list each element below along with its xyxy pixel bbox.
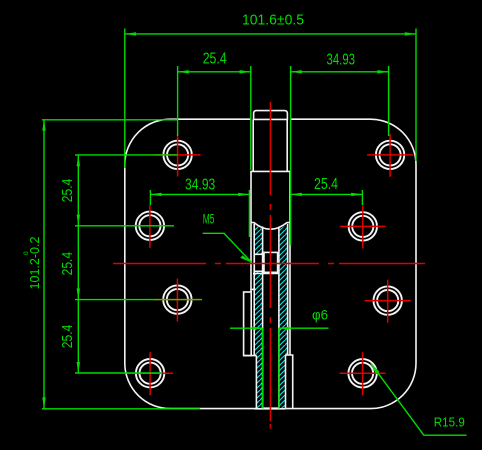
text 25.4 stack 1 bbox=[59, 179, 76, 203]
text 101.2 tol rotated bbox=[23, 236, 42, 289]
knuckle outer wall right bbox=[289, 171, 291, 355]
arrows dim stack ends bbox=[77, 155, 80, 166]
left step line bbox=[244, 355, 257, 357]
crosshair hole L2 bbox=[127, 205, 173, 248]
arrows dim 25.4 top-left bbox=[178, 70, 189, 73]
hatch border a bbox=[253, 224, 255, 356]
ext x=290.2 bbox=[290, 66, 292, 245]
diamond tick y=226 bbox=[77, 215, 80, 226]
ext y=300 bbox=[75, 299, 202, 301]
svg-text:R15.9: R15.9 bbox=[434, 414, 465, 429]
pin cap bbox=[254, 111, 288, 120]
svg-text:M5: M5 bbox=[203, 211, 215, 227]
nut bottom line bbox=[253, 273, 280, 275]
text 25.4 stack 2 bbox=[59, 252, 76, 276]
crosshair hole R1 bbox=[367, 134, 413, 177]
ext x=362.4 bbox=[361, 190, 363, 205]
arrows dim 34.93 top-right bbox=[291, 70, 302, 73]
svg-text:34.93: 34.93 bbox=[327, 51, 356, 68]
left wall end tick bbox=[250, 288, 255, 290]
hatch lower-left wall bbox=[256, 356, 262, 409]
svg-text:25.4: 25.4 bbox=[59, 325, 76, 349]
ext x=250.8 bbox=[250, 66, 252, 170]
ext phi6 right bbox=[278, 328, 280, 408]
svg-text:101.2-0.2: 101.2-0.2 bbox=[28, 236, 42, 289]
left leaf gap rectangle bbox=[244, 292, 252, 356]
dim 25.4 top-left line bbox=[178, 71, 251, 73]
dim 101.6 line bbox=[125, 33, 416, 35]
svg-text:25.4: 25.4 bbox=[314, 176, 338, 193]
crosshair hole R4 bbox=[340, 352, 386, 395]
hatch border d bbox=[287, 224, 289, 356]
nut block bbox=[264, 252, 278, 272]
lower wall borders bbox=[255, 356, 257, 409]
crosshair hole L3 bbox=[154, 279, 200, 322]
ext y=155 bbox=[75, 154, 178, 156]
dim 34.93 top-right line bbox=[291, 71, 389, 73]
dim phi6 line right bbox=[279, 327, 329, 329]
knuckle top concave edge bbox=[251, 223, 290, 230]
hole R3 bbox=[374, 286, 402, 314]
right leaf inner edge bbox=[285, 355, 292, 409]
arrows dim 34.93 mid-left bbox=[150, 193, 161, 196]
right leaf outline bbox=[285, 119, 416, 408]
ext x=150.4 bbox=[149, 190, 151, 205]
hole L2 bbox=[136, 212, 164, 240]
knuckle outer wall left bbox=[250, 171, 252, 292]
ext x=249.4 bbox=[248, 190, 250, 237]
leader R15.9 bbox=[371, 363, 467, 435]
hole R1 bbox=[376, 141, 404, 169]
arrows dim 101.2 bbox=[42, 119, 45, 130]
dim 101.2 vertical line bbox=[43, 119, 45, 408]
pin hole left edge bbox=[262, 227, 264, 409]
hole R2 bbox=[349, 212, 377, 240]
hole R4 bbox=[348, 359, 376, 387]
pin hole right edge bbox=[278, 227, 280, 409]
ext x=388.6 bbox=[388, 66, 390, 136]
crosshair hole R2 bbox=[340, 205, 386, 248]
ext top y=119.8 bbox=[42, 119, 178, 121]
arrow R15.9 leader bbox=[371, 363, 380, 374]
ext phi6 left bbox=[262, 328, 264, 408]
hatch knuckle upper-right wall bbox=[279, 225, 288, 356]
crosshair hole L1 bbox=[155, 134, 201, 177]
arrows dim 101.6 bbox=[125, 32, 136, 35]
svg-text:34.93: 34.93 bbox=[185, 176, 215, 193]
nut left washer bbox=[254, 254, 262, 271]
left leaf outline bbox=[125, 119, 257, 408]
leader M5 bbox=[203, 233, 252, 262]
ext x=177.6 bbox=[177, 66, 179, 136]
hole L3 bbox=[163, 285, 191, 313]
pin bottom bbox=[263, 407, 279, 409]
diamond tick y=300 bbox=[77, 288, 80, 299]
crosshair hole L4 bbox=[127, 352, 173, 395]
arrows dim 25.4 mid-right bbox=[291, 193, 302, 196]
dim 34.93 mid-left line bbox=[150, 193, 249, 195]
centerline horizontal (part axis) bbox=[113, 263, 425, 265]
pin shoulder step bbox=[250, 170, 290, 172]
dim stack 25.4 vertical line bbox=[77, 155, 79, 373]
hole L4 bbox=[136, 359, 164, 387]
text 25.4 stack 3 bbox=[59, 325, 76, 349]
dim 25.4 mid-right line bbox=[291, 193, 363, 195]
ext bottom y=408.8 bbox=[42, 408, 200, 410]
ext line left x=126 bbox=[124, 29, 126, 169]
arrow M5 leader bbox=[240, 255, 252, 263]
ext y=373 bbox=[75, 372, 162, 374]
svg-text:101.6±0.5: 101.6±0.5 bbox=[242, 12, 304, 29]
hatch lower-right wall bbox=[279, 356, 286, 409]
hole L1 bbox=[163, 141, 191, 169]
hatch knuckle upper-left wall bbox=[254, 225, 262, 356]
arrows phi6 bbox=[253, 327, 263, 330]
crosshair hole R3 bbox=[365, 280, 411, 323]
svg-text:25.4: 25.4 bbox=[59, 179, 76, 203]
svg-text:25.4: 25.4 bbox=[203, 51, 227, 68]
centerline vertical (pin axis) bbox=[269, 102, 271, 421]
dim phi6 line left bbox=[230, 327, 263, 329]
barrel bottom bbox=[255, 408, 286, 410]
ext y=226 bbox=[75, 225, 174, 227]
ext line right x=416 bbox=[415, 29, 417, 162]
svg-text:0: 0 bbox=[23, 251, 30, 255]
svg-text:φ6: φ6 bbox=[312, 307, 328, 323]
pin upper body bbox=[252, 119, 254, 171]
svg-text:25.4: 25.4 bbox=[59, 252, 76, 276]
